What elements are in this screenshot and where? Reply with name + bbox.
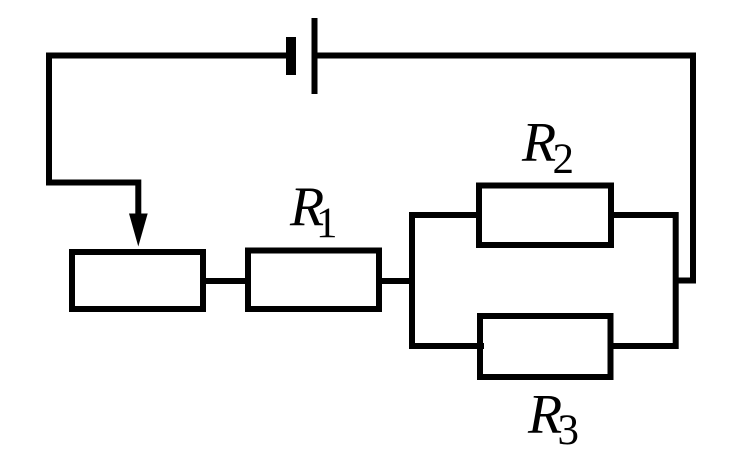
svg-text:1: 1 — [316, 200, 338, 247]
svg-text:2: 2 — [553, 136, 575, 183]
svg-text:3: 3 — [558, 407, 580, 454]
svg-text:R: R — [521, 112, 556, 174]
